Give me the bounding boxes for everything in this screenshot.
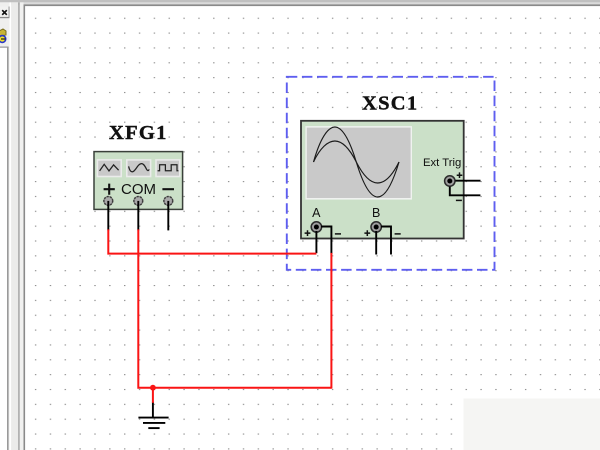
panel content white area [0,48,7,450]
XFG1 - terminal stub (black) [167,201,169,231]
Ext Trig minus mark [456,199,462,201]
svg-text:XSC1: XSC1 [362,93,418,115]
wire COM down and across to ground net (red) [138,229,331,387]
channel B minus stub wire [381,227,391,255]
ground lead (black) [152,402,154,417]
XFG1 minus label [162,188,174,190]
XFG1 terminal COM [134,197,143,206]
wire channel A minus down (red) [330,253,332,389]
svg-text:B: B [372,206,380,220]
oscilloscope XSC1 body [301,121,464,239]
top toolbar band [0,0,600,2]
channel A plus stub (black) [315,231,317,253]
channel B plus stub wire [375,231,377,255]
XFG1 sine-wave button [127,160,151,177]
XFG1 terminal + [104,197,113,206]
svg-text:Ext Trig: Ext Trig [423,157,461,169]
svg-text:A: A [312,206,321,220]
screen sine trace small [314,141,400,183]
panel close button [0,7,10,19]
channel A plus mark [305,230,311,236]
XFG1 plus label [104,184,115,195]
XFG1 + terminal stub (black) [107,201,109,231]
ground symbol [138,418,168,429]
Ext Trig lower stub wire [450,187,481,196]
XFG1 square-wave button [156,160,180,177]
panel toolbar icon (partial) [0,29,6,43]
channel A minus mark [335,233,341,235]
off-sheet gray region [464,399,600,450]
screen sine trace big [314,127,400,197]
XFG1 triangle-wave button [97,160,121,177]
Ext Trig plus mark [457,172,463,178]
selection box around XSC1 (dashed) [287,77,495,270]
function generator XFG1 body [94,152,183,210]
left docked panel strip [0,2,10,450]
wire junction to ground (red) [152,388,154,403]
Ext Trig top stub wire [455,180,480,182]
channel A terminal [311,222,321,232]
svg-text:XFG1: XFG1 [109,122,168,144]
XFG1 COM terminal stub (black) [137,201,139,231]
XFG1 terminal - [164,197,173,206]
channel B minus mark [395,233,401,235]
Ext Trig terminal [445,176,455,186]
channel A minus stub (black) [321,227,331,254]
XSC1 screen [305,126,412,200]
splitter bar [10,2,12,450]
junction node (ground net) [150,385,156,391]
channel B plus mark [364,230,370,236]
wire XFG1+ to channel A (red) [108,229,316,253]
svg-text:COM: COM [121,181,156,198]
channel B terminal [371,222,381,232]
